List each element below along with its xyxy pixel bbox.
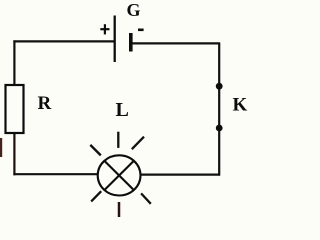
svg-text:G: G — [127, 0, 141, 20]
lamp ray SW — [91, 191, 101, 201]
lamp L — [98, 155, 141, 195]
switch K contact dot upper — [216, 83, 223, 90]
wire right vertical — [218, 43, 220, 175]
label + — [100, 24, 109, 34]
svg-text:K: K — [233, 94, 248, 115]
svg-text:R: R — [38, 93, 52, 114]
switch K contact dot lower — [216, 125, 223, 132]
label - — [138, 28, 144, 31]
scan artifact left edge — [0, 138, 2, 157]
lamp ray N — [117, 132, 119, 148]
wire bottom-right horizontal — [141, 174, 221, 176]
lamp ray SE — [141, 193, 151, 203]
wire top-right horizontal — [131, 42, 220, 44]
battery G long plate (+) — [114, 16, 116, 63]
lamp ray NE — [132, 137, 144, 150]
wire left vertical upper — [13, 40, 15, 85]
wire left vertical lower — [13, 134, 15, 175]
svg-text:L: L — [116, 99, 129, 121]
wire bottom-left horizontal — [13, 173, 98, 175]
resistor R — [6, 85, 24, 133]
lamp ray S — [118, 202, 121, 217]
lamp ray NW — [90, 145, 101, 156]
wire top-left horizontal — [13, 40, 115, 42]
battery G short plate (-) — [129, 33, 133, 52]
